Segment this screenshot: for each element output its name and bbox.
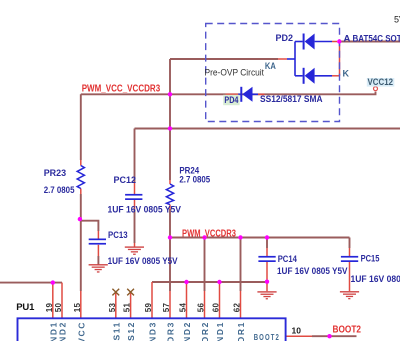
svg-text:54: 54	[179, 303, 188, 313]
svg-text:PC14: PC14	[278, 254, 298, 265]
svg-text:5V: 5V	[394, 15, 400, 25]
svg-text:Pre-OVP Circuit: Pre-OVP Circuit	[205, 68, 265, 78]
svg-text:10: 10	[292, 326, 302, 336]
svg-text:1UF 16V 0805 Y5V: 1UF 16V 0805 Y5V	[277, 266, 348, 277]
svg-text:BAT54C SOT23: BAT54C SOT23	[353, 34, 400, 45]
svg-text:PC12: PC12	[114, 175, 137, 186]
svg-text:2.7 0805: 2.7 0805	[179, 175, 210, 186]
svg-text:SS12/5817 SMA: SS12/5817 SMA	[260, 94, 323, 105]
svg-text:DR3: DR3	[166, 321, 176, 341]
svg-text:CS12: CS12	[126, 321, 136, 341]
svg-text:KA: KA	[265, 61, 276, 71]
svg-text:1UF 16V 0805 Y5V: 1UF 16V 0805 Y5V	[108, 204, 182, 215]
svg-text:A: A	[344, 34, 351, 45]
svg-text:PU1: PU1	[16, 302, 35, 313]
svg-text:GND1: GND1	[215, 321, 225, 341]
svg-text:PC13: PC13	[108, 230, 128, 241]
svg-text:GND2: GND2	[58, 321, 68, 341]
svg-text:BOOT2: BOOT2	[254, 332, 280, 341]
svg-text:57: 57	[162, 303, 171, 313]
svg-text:DR2: DR2	[200, 321, 210, 341]
svg-text:62: 62	[233, 303, 242, 313]
svg-text:60: 60	[212, 303, 221, 313]
svg-text:GND2: GND2	[182, 321, 192, 341]
svg-text:51: 51	[123, 303, 132, 313]
svg-text:VCC12: VCC12	[368, 77, 394, 87]
svg-text:1UF 16V 0805 Y5V: 1UF 16V 0805 Y5V	[108, 256, 179, 267]
svg-text:CS11: CS11	[111, 321, 121, 341]
svg-text:56: 56	[197, 303, 206, 313]
svg-text:VCC: VCC	[76, 321, 86, 341]
svg-text:K: K	[343, 69, 350, 79]
svg-text:59: 59	[144, 303, 153, 313]
svg-text:PD2: PD2	[276, 33, 294, 44]
svg-text:GND3: GND3	[148, 321, 158, 341]
svg-text:2.7 0805: 2.7 0805	[44, 185, 75, 196]
svg-text:BOOT2: BOOT2	[333, 325, 362, 336]
svg-text:PD4: PD4	[224, 95, 239, 106]
svg-text:15: 15	[73, 303, 82, 313]
svg-text:PWM_VCC_VCCDR3: PWM_VCC_VCCDR3	[82, 84, 161, 95]
svg-text:PR23: PR23	[44, 168, 66, 179]
svg-text:PWM_VCCDR3: PWM_VCCDR3	[182, 229, 236, 240]
svg-text:50: 50	[54, 303, 63, 313]
svg-text:19: 19	[45, 303, 54, 313]
svg-text:1UF 16V 0805 Y5V: 1UF 16V 0805 Y5V	[351, 274, 400, 285]
svg-text:53: 53	[108, 303, 117, 313]
svg-text:DR1: DR1	[236, 321, 246, 341]
svg-text:PC15: PC15	[361, 254, 380, 265]
